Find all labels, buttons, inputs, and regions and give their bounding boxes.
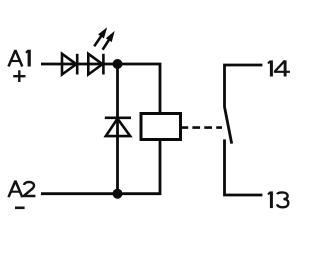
wire junction branch vertical	[116, 64, 119, 194]
wire coil bottom to A2	[41, 140, 160, 194]
LED D2 (light-emitting diode)	[88, 54, 103, 75]
polarity plus symbol	[13, 70, 25, 82]
dashed actuation link	[181, 126, 223, 129]
freewheeling diode D3	[105, 118, 131, 136]
terminal label 13	[268, 191, 288, 208]
terminal label A2	[9, 181, 36, 197]
polarity minus symbol	[15, 207, 25, 210]
relay coil K1	[141, 114, 181, 140]
terminal label A1	[9, 50, 30, 67]
LED emission arrow 1	[94, 27, 107, 46]
node junction bottom	[113, 189, 123, 199]
wire terminal 13	[225, 139, 263, 195]
node junction top	[113, 59, 123, 69]
terminal label 14	[268, 60, 290, 76]
diode D1 (series diode)	[62, 54, 77, 75]
contact armature (NO make contact)	[225, 107, 232, 143]
wire A1 to coil top	[41, 64, 160, 114]
LED emission arrow 2	[103, 31, 115, 50]
wire terminal 14	[225, 65, 263, 108]
